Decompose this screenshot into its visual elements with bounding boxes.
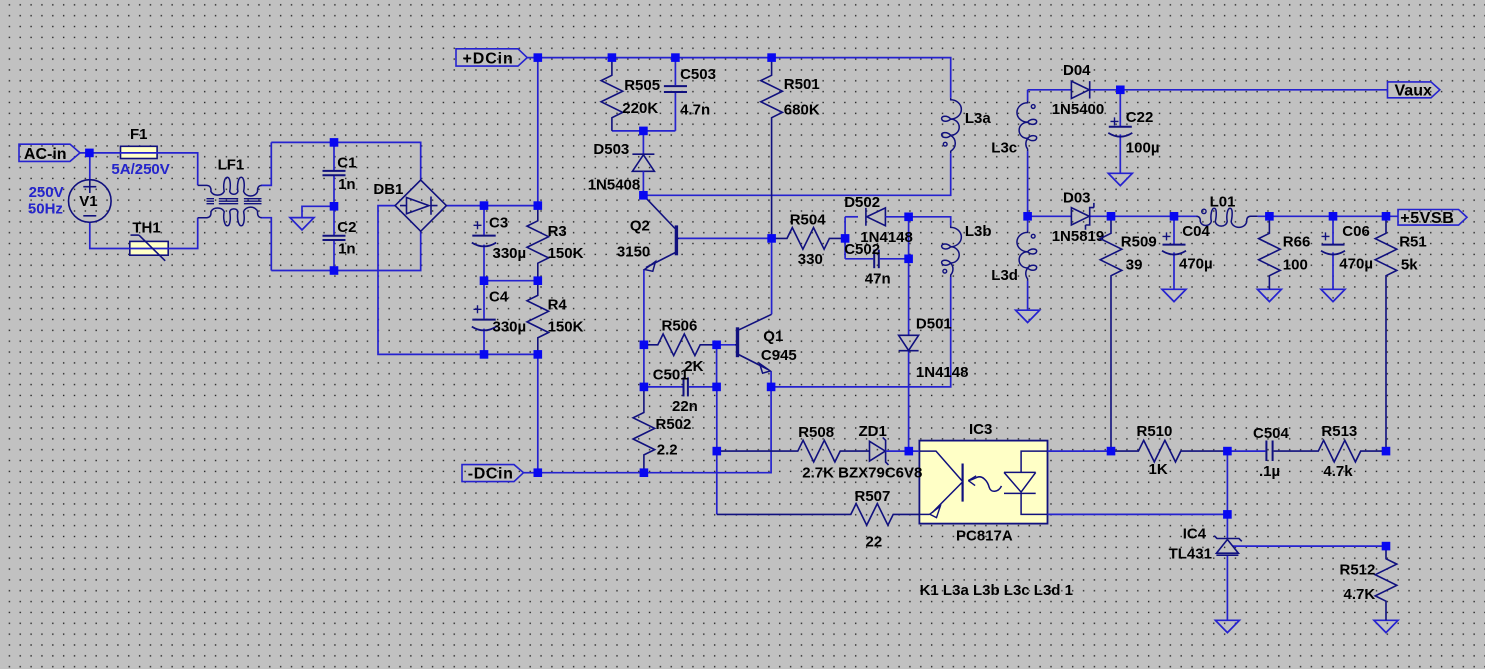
svg-text:C4: C4 <box>489 288 509 305</box>
wire emitter rail to L3b bottom <box>771 277 951 387</box>
svg-text:Q1: Q1 <box>763 328 783 345</box>
capacitor C504 <box>1227 425 1289 480</box>
wire C501 node down to R507 row <box>716 387 718 515</box>
ground below L3d <box>1016 310 1040 322</box>
junction ZD1 cathode node <box>905 447 914 456</box>
svg-text:C945: C945 <box>761 347 797 364</box>
wire -DC spine <box>537 354 539 472</box>
wire L01 to +5VSB flag <box>1258 215 1398 217</box>
wire DB1 plus to C3 R3 rail <box>446 205 538 207</box>
svg-text:C502: C502 <box>844 241 880 258</box>
junction C06 top <box>1329 212 1338 221</box>
junction L3c L3d node <box>1023 212 1032 221</box>
wire R505 C503 bottom link <box>612 130 676 132</box>
junction C501 right <box>712 383 721 392</box>
bridge rectifier DB1 <box>373 180 446 231</box>
svg-text:V1: V1 <box>79 193 97 210</box>
winding L3a <box>942 98 992 154</box>
svg-text:R513: R513 <box>1321 423 1357 440</box>
svg-text:R508: R508 <box>798 424 834 441</box>
svg-text:PC817A: PC817A <box>956 528 1013 545</box>
junction R51 top <box>1382 212 1391 221</box>
svg-text:5A/250V: 5A/250V <box>111 161 169 178</box>
svg-text:2.2: 2.2 <box>657 441 678 458</box>
wire bottom AC bus to DB1 bottom corner <box>271 231 420 270</box>
junction R66 top <box>1265 212 1274 221</box>
junction C1 C2 mid <box>330 202 339 211</box>
wire C3-C4 mid rail <box>484 280 538 282</box>
svg-text:150K: 150K <box>548 245 584 262</box>
svg-text:L3d: L3d <box>991 267 1018 284</box>
svg-text:250V: 250V <box>29 184 64 201</box>
junction -DCin tip <box>534 468 543 477</box>
svg-text:AC-in: AC-in <box>24 146 67 163</box>
svg-text:L01: L01 <box>1210 193 1236 210</box>
wire C1 top lead <box>333 142 335 170</box>
wire V1 minus to TH1 to LF1 bottom-left <box>90 218 198 249</box>
junction C502 right node <box>904 255 913 264</box>
svg-text:D04: D04 <box>1063 62 1091 79</box>
ground below R66 <box>1257 289 1281 301</box>
capacitor C22 (polar) <box>1108 109 1159 156</box>
junction +DCin tip <box>534 53 543 62</box>
capacitor C502 <box>844 241 908 287</box>
svg-text:330µ: 330µ <box>493 245 527 262</box>
svg-text:+5VSB: +5VSB <box>1400 210 1454 227</box>
junction R4 bottom <box>534 350 543 359</box>
wire IC4 ref to R512 node <box>1233 545 1386 547</box>
wire D502 C502 right vertical <box>908 217 910 259</box>
resistor R510 <box>1111 423 1227 478</box>
svg-text:IC3: IC3 <box>969 421 992 438</box>
junction R509 top <box>1107 212 1116 221</box>
svg-text:C3: C3 <box>489 214 508 231</box>
winding L3b <box>942 223 992 277</box>
wire L3b top link <box>909 217 951 226</box>
wire C3 leads <box>483 206 485 281</box>
capacitor C4 (polar) <box>472 288 526 335</box>
resistor R505 <box>601 58 660 131</box>
wire C2 bottom lead <box>333 241 335 271</box>
wire LF1 top-right up to AC bus <box>261 142 271 185</box>
capacitor C06 (polar) <box>1321 223 1373 273</box>
flag +5VSB <box>1398 210 1467 228</box>
wire IC4 anode to ground <box>1226 555 1228 620</box>
wire -DCin flag tip <box>524 472 538 474</box>
svg-text:Vaux: Vaux <box>1395 83 1432 100</box>
svg-text:1n: 1n <box>338 241 356 258</box>
wire C1-C2 mid leads <box>333 176 335 235</box>
svg-text:D501: D501 <box>916 316 952 333</box>
flag Vaux <box>1388 82 1440 100</box>
wire IC3 collector out to R510 <box>1048 450 1112 452</box>
resistor R508 <box>717 424 923 481</box>
svg-text:ZD1: ZD1 <box>859 423 887 440</box>
inductor L01 <box>1197 193 1258 227</box>
common-mode choke LF1 <box>198 157 262 226</box>
wire R510 node down to IC4 cathode <box>1226 451 1228 538</box>
svg-text:2.7K BZX79C6V8: 2.7K BZX79C6V8 <box>802 464 922 481</box>
wire D503 anode rail to L3a bottom <box>643 153 950 195</box>
junction R506 right <box>712 341 721 350</box>
junction AC-in node <box>85 149 94 158</box>
svg-text:R509: R509 <box>1121 234 1157 251</box>
svg-text:330µ: 330µ <box>493 319 527 336</box>
junction R502 bottom <box>640 468 649 477</box>
svg-text:680K: 680K <box>784 101 820 118</box>
wire DB1 minus to bottom rail <box>378 206 538 355</box>
flag +DCin <box>456 49 527 68</box>
junction R3 R4 mid <box>534 276 543 285</box>
junction C04 top <box>1170 212 1179 221</box>
junction IC3 emitter node <box>1223 510 1232 519</box>
svg-text:47n: 47n <box>865 270 891 287</box>
wire LF1 bottom-right down to AC return bus <box>261 218 271 271</box>
svg-text:220K: 220K <box>622 100 658 117</box>
junction R506 left <box>640 341 649 350</box>
junction R3 top <box>534 201 543 210</box>
wire C501 right side vertical <box>716 345 718 387</box>
svg-text:39: 39 <box>1126 257 1143 274</box>
svg-text:-DCin: -DCin <box>468 466 514 483</box>
wire C04 leads <box>1173 216 1175 289</box>
svg-text:R505: R505 <box>624 77 660 94</box>
fuse F1 body <box>121 146 158 158</box>
junction C501 left <box>640 383 649 392</box>
svg-text:150K: 150K <box>548 319 584 336</box>
opto-coupler IC3 internals and labels <box>919 421 1047 545</box>
junction R505 top <box>608 53 617 62</box>
ground below R512 <box>1374 620 1398 632</box>
junction C503 top <box>671 53 680 62</box>
junction D502 cathode node <box>904 213 913 222</box>
flag AC-in <box>19 144 80 163</box>
wire D04 cathode to Vaux <box>1090 89 1388 91</box>
svg-text:R510: R510 <box>1137 423 1173 440</box>
svg-text:1N5400: 1N5400 <box>1052 101 1105 118</box>
svg-text:D03: D03 <box>1063 190 1091 207</box>
junction R510 left node <box>1107 447 1116 456</box>
diode D503 <box>588 131 655 195</box>
junction D04 cathode node <box>1116 86 1125 95</box>
opto-coupler IC3 body <box>919 441 1047 524</box>
transistor Q2 <box>617 195 679 271</box>
wire Q1 emitter to rail <box>770 371 772 387</box>
svg-text:LF1: LF1 <box>218 157 245 174</box>
svg-text:D503: D503 <box>593 141 629 158</box>
junction D503 anode node <box>639 191 648 200</box>
svg-text:TH1: TH1 <box>132 220 160 237</box>
junction R505 C503 bottom <box>639 127 648 136</box>
wire node to chassis ground stub <box>302 206 334 217</box>
ground below C06 <box>1321 289 1345 301</box>
svg-text:1n: 1n <box>338 176 356 193</box>
winding L3c <box>991 101 1036 157</box>
svg-text:R3: R3 <box>548 223 567 240</box>
junction C3 top <box>480 201 489 210</box>
junction C4 bottom <box>480 350 489 359</box>
svg-text:R506: R506 <box>662 317 698 334</box>
wire top AC bus to DB1 top corner <box>271 142 420 180</box>
svg-text:3150: 3150 <box>617 244 650 261</box>
wire L3c winding junction to D03 <box>1028 215 1072 217</box>
junction IC4 ref node <box>1382 542 1391 551</box>
wire D501 cathode down to ZD1 node <box>908 351 910 451</box>
ground below C22 <box>1108 173 1132 185</box>
svg-text:22n: 22n <box>672 398 698 415</box>
svg-text:470µ: 470µ <box>1339 256 1373 273</box>
diode D502 <box>844 194 913 246</box>
svg-text:1K: 1K <box>1149 461 1168 478</box>
resistor R509 <box>1100 216 1156 451</box>
svg-text:K1 L3a L3b L3c L3d 1: K1 L3a L3b L3c L3d 1 <box>920 582 1073 599</box>
junction R504 D502 node <box>841 234 850 243</box>
svg-text:C504: C504 <box>1253 425 1290 442</box>
voltage source V1 <box>69 180 112 223</box>
junction R510 right node <box>1223 447 1232 456</box>
svg-text:R51: R51 <box>1399 234 1427 251</box>
svg-text:C503: C503 <box>680 66 716 83</box>
wire AC-in to F1 to LF1 top-left <box>80 153 198 185</box>
junction Q2 base node <box>767 234 776 243</box>
svg-text:L3b: L3b <box>965 223 992 240</box>
capacitor C2 <box>323 219 357 258</box>
junction C2 bottom <box>330 266 339 275</box>
wire C22 leads <box>1119 90 1121 174</box>
svg-text:R501: R501 <box>784 76 820 93</box>
resistor R507 <box>717 488 920 550</box>
transformer coupling note K1 <box>920 582 1073 599</box>
resistor R513 <box>1274 423 1386 480</box>
resistor R4 <box>527 281 584 355</box>
resistor R506 <box>644 317 717 374</box>
wire Q1 base lead <box>717 344 736 346</box>
capacitor C503 <box>664 58 716 131</box>
wire L3c top to D04 <box>1027 90 1029 101</box>
wire L3d bottom to ground <box>1027 281 1029 310</box>
fuse F1 labels <box>111 126 169 178</box>
zener diode ZD1 <box>859 423 920 465</box>
svg-text:C1: C1 <box>337 154 356 171</box>
resistor R51 <box>1375 216 1427 451</box>
ground below C04 <box>1162 289 1186 301</box>
wire D03 cathode to L01 <box>1090 215 1197 217</box>
resistor R501 <box>761 58 820 239</box>
svg-text:4.7n: 4.7n <box>680 101 710 118</box>
junction R508 left node <box>713 447 722 456</box>
winding L3d <box>991 230 1036 284</box>
wire AC-in junction to V1 plus <box>89 153 91 180</box>
svg-text:F1: F1 <box>130 126 148 143</box>
wire C502 node down to D501 <box>908 259 910 335</box>
wire D502 C502 left vertical <box>844 217 846 259</box>
junction C3 C4 mid <box>480 276 489 285</box>
thermistor TH1 body <box>130 241 168 255</box>
svg-text:L3c: L3c <box>991 139 1017 156</box>
svg-text:22: 22 <box>866 533 883 550</box>
svg-text:C06: C06 <box>1342 223 1370 240</box>
svg-text:4.7K: 4.7K <box>1344 586 1376 603</box>
svg-text:TL431: TL431 <box>1169 546 1212 563</box>
svg-text:50Hz: 50Hz <box>28 201 63 218</box>
svg-text:Q2: Q2 <box>630 217 650 234</box>
svg-text:DB1: DB1 <box>373 181 403 198</box>
svg-text:+DCin: +DCin <box>463 51 514 68</box>
svg-text:IC4: IC4 <box>1183 526 1207 543</box>
svg-text:100: 100 <box>1283 257 1308 274</box>
resistor R504 <box>772 211 846 268</box>
wire Q2 emitter down to R506 C501 node <box>643 269 645 387</box>
ground below IC4 <box>1215 620 1239 632</box>
svg-text:R66: R66 <box>1283 234 1311 251</box>
ground near C1 C2 <box>290 218 314 230</box>
transistor Q1 <box>735 314 797 373</box>
diode D501 <box>899 316 969 381</box>
diode D04 <box>1052 62 1105 118</box>
diode D03 (schottky) <box>1052 190 1105 246</box>
svg-text:C04: C04 <box>1182 223 1210 240</box>
junction Q1 emitter node <box>767 383 776 392</box>
flag -DCin <box>462 465 524 483</box>
junction R501 top <box>767 53 776 62</box>
svg-text:1N4148: 1N4148 <box>916 364 969 381</box>
wire +DCin spine down to rectifier rail <box>527 58 538 206</box>
svg-text:R502: R502 <box>656 416 692 433</box>
capacitor C1 <box>323 154 357 193</box>
svg-text:C2: C2 <box>337 219 356 236</box>
svg-text:470µ: 470µ <box>1179 256 1213 273</box>
svg-text:5k: 5k <box>1401 257 1418 274</box>
svg-text:L3a: L3a <box>965 110 992 127</box>
svg-text:.1µ: .1µ <box>1259 463 1280 480</box>
shunt regulator IC4 TL431 <box>1169 526 1242 563</box>
svg-text:4.7k: 4.7k <box>1323 463 1353 480</box>
wire C06 leads <box>1332 216 1334 289</box>
wire IC3 emitter out to IC4 node <box>1048 513 1228 515</box>
resistor R3 <box>527 206 584 281</box>
wire +DC top bus to L3a <box>538 58 951 98</box>
svg-text:R504: R504 <box>790 211 827 228</box>
svg-text:C22: C22 <box>1126 109 1154 126</box>
svg-text:R507: R507 <box>855 488 891 505</box>
capacitor C501 <box>644 367 717 416</box>
wire L3c top rail to D04 anode <box>1028 89 1072 91</box>
wire L3c to L3d link <box>1027 151 1029 230</box>
svg-text:1N5408: 1N5408 <box>588 177 641 194</box>
wire -DCin rail to Q1 emitter node <box>538 387 771 473</box>
wire C4 leads <box>483 281 485 355</box>
svg-text:D502: D502 <box>844 194 880 211</box>
svg-text:C501: C501 <box>653 367 689 384</box>
svg-text:1N5819: 1N5819 <box>1052 228 1105 245</box>
capacitor C3 (polar) <box>472 214 526 262</box>
wire Q2 base to R501 R504 node <box>679 237 772 239</box>
wire Q1 collector from base node <box>771 238 773 314</box>
resistor R502 <box>633 387 691 473</box>
capacitor C04 (polar) <box>1162 223 1213 273</box>
svg-text:100µ: 100µ <box>1126 139 1160 156</box>
svg-text:330: 330 <box>798 251 823 268</box>
resistor R66 <box>1259 216 1311 289</box>
junction C1 top <box>330 138 339 147</box>
svg-text:R512: R512 <box>1340 562 1376 579</box>
V1 value 250V 50Hz <box>28 184 64 217</box>
resistor R512 <box>1340 546 1397 620</box>
svg-text:R4: R4 <box>548 297 568 314</box>
junction R513 right node <box>1382 447 1391 456</box>
thermistor TH1 strike and labels <box>131 220 166 261</box>
